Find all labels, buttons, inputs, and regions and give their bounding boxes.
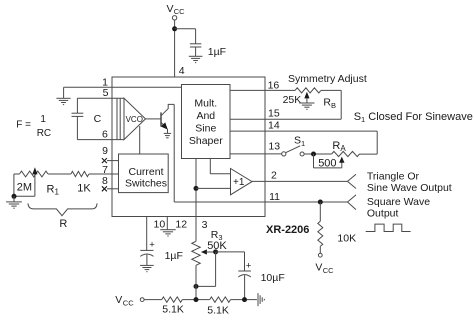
pin 6 label xyxy=(102,129,108,141)
ground (emitter) xyxy=(164,133,171,137)
transistor Q1 emitter xyxy=(161,122,168,133)
svg-text:2M: 2M xyxy=(17,181,32,193)
wire R3 bottom xyxy=(195,265,197,299)
wiper RA loop xyxy=(314,154,345,168)
wire pin 12 xyxy=(166,217,168,230)
junction dot S1/RA/wiper xyxy=(311,152,316,157)
wire VCO output to transistor base xyxy=(146,118,162,120)
label 25K xyxy=(283,94,302,106)
wire RB loop right xyxy=(340,90,342,119)
resistor 10K xyxy=(318,202,356,253)
label 5.1K right xyxy=(207,304,229,316)
wiper RB to ground xyxy=(304,92,309,103)
svg-text:Symmetry Adjust: Symmetry Adjust xyxy=(288,73,367,85)
capacitor 1uF (pin 10 bypass) xyxy=(140,239,183,265)
svg-text:+: + xyxy=(246,261,252,272)
svg-text:10K: 10K xyxy=(337,232,356,244)
svg-text:8: 8 xyxy=(102,175,108,187)
svg-text:V: V xyxy=(115,294,122,306)
wire junction to bypass capacitor xyxy=(175,29,196,44)
ground (bypass capacitor) xyxy=(189,56,203,62)
svg-text:15: 15 xyxy=(268,108,280,120)
switch S1 xyxy=(282,135,305,156)
svg-text:1µF: 1µF xyxy=(208,46,226,58)
svg-text:Switches: Switches xyxy=(125,178,167,190)
wire pin 6 xyxy=(77,139,124,141)
wire dot to ground xyxy=(13,196,15,201)
transistor Q1 collector xyxy=(161,104,174,115)
formula F = 1/RC xyxy=(16,114,51,139)
svg-text:16: 16 xyxy=(268,79,280,91)
label 500 xyxy=(318,157,336,169)
square wave icon xyxy=(366,224,411,231)
junction dot pin11/10K xyxy=(318,200,323,205)
IC XR-2206 outline xyxy=(112,77,265,217)
node VCC (10K pull-up) xyxy=(315,253,334,275)
op-amp +1 buffer xyxy=(231,169,253,195)
svg-text:RC: RC xyxy=(37,128,51,139)
svg-text:10µF: 10µF xyxy=(261,272,285,284)
svg-text:S1 Closed For Sinewave: S1 Closed For Sinewave xyxy=(354,111,473,124)
wire pin 11 from collector xyxy=(174,104,347,202)
wire S1 to RA xyxy=(304,153,331,155)
ground (pin 10 capacitor) xyxy=(140,265,154,271)
pin 1 label xyxy=(102,77,108,89)
wire pin 3 vertical xyxy=(195,159,197,242)
wire VCO to current switches xyxy=(139,126,141,154)
pin 11 label xyxy=(269,191,280,203)
svg-text:2: 2 xyxy=(271,170,277,182)
junction dot rail/10uF xyxy=(242,297,247,302)
svg-text:XR-2206: XR-2206 xyxy=(266,224,309,236)
transistor Q1 base bar xyxy=(160,112,162,126)
svg-text:Sine: Sine xyxy=(195,122,216,134)
capacitor 10uF xyxy=(238,261,284,300)
op-amp VCO (triangle) xyxy=(117,98,146,139)
label XR-2206 xyxy=(266,224,309,236)
pin 15 label xyxy=(268,108,280,120)
svg-text:Triangle Or: Triangle Or xyxy=(367,171,420,183)
svg-text:Output: Output xyxy=(367,207,399,219)
svg-text:10: 10 xyxy=(154,218,166,230)
pin 9 label xyxy=(102,145,108,157)
svg-text:5: 5 xyxy=(103,87,109,99)
label Symmetry Adjust xyxy=(288,73,367,85)
pin 2 label xyxy=(271,170,277,182)
resistor 5.1K (left) xyxy=(162,297,183,302)
junction dot R3 bottom xyxy=(194,284,199,289)
svg-text:1: 1 xyxy=(40,114,46,125)
label Square Wave xyxy=(367,196,430,208)
svg-text:And: And xyxy=(196,110,215,122)
wire pin 9 xyxy=(107,160,119,162)
label R1 xyxy=(47,184,60,197)
label Output xyxy=(367,207,399,219)
pin 8 X mark (open) xyxy=(102,186,107,191)
label S1 Closed For Sinewave xyxy=(354,111,473,124)
resistor R3 50K (pot) xyxy=(192,241,200,265)
brace R (total resistance) xyxy=(28,203,97,215)
junction dot 2M/ground xyxy=(12,194,17,199)
junction dot VCC/C bypass xyxy=(172,26,177,31)
svg-text:6: 6 xyxy=(102,129,108,141)
label 5.1K left xyxy=(162,304,184,316)
pin 10 label xyxy=(154,218,166,230)
label Sine Wave Output xyxy=(367,182,452,194)
svg-text:12: 12 xyxy=(175,218,187,230)
terminal fork pin 2 xyxy=(348,174,357,188)
wire pin 10 xyxy=(146,217,148,251)
wire pin 13 xyxy=(230,153,282,155)
svg-text:F =: F = xyxy=(16,120,31,131)
svg-text:CC: CC xyxy=(123,298,134,307)
junction dot R3 wiper xyxy=(213,249,218,254)
resistor R1 (2M pot element) xyxy=(20,171,49,177)
svg-text:C: C xyxy=(94,113,102,125)
node VCC (bottom rail) xyxy=(115,294,144,307)
wiper R3 xyxy=(201,249,216,254)
resistor RA 500 (pot) xyxy=(332,151,360,156)
pin 3 label xyxy=(202,219,208,231)
block Current Switches xyxy=(119,154,169,193)
wire pin7 left segment xyxy=(14,173,71,175)
svg-text:VCO: VCO xyxy=(126,115,143,124)
wire pin 1 xyxy=(64,86,182,88)
wire pin 2 output xyxy=(252,180,348,182)
wiper 2M pot xyxy=(14,167,38,196)
svg-text:1µF: 1µF xyxy=(165,250,183,262)
pin 4 label xyxy=(179,65,185,77)
resistor 1K xyxy=(71,171,89,176)
block Mult. And Sine Shaper xyxy=(182,85,231,159)
pin 5 label xyxy=(103,87,109,99)
wire VCC rail xyxy=(144,299,257,301)
label R3 xyxy=(211,229,223,242)
svg-text:R: R xyxy=(59,218,67,230)
svg-text:25K: 25K xyxy=(283,94,302,106)
label 2M xyxy=(17,181,32,193)
junction dot pin3/buffer xyxy=(194,186,199,191)
svg-text:Mult.: Mult. xyxy=(194,98,217,110)
wire RA loop right xyxy=(360,131,378,154)
ground (rail, rotated) xyxy=(258,293,264,306)
pin 16 label xyxy=(268,79,280,91)
svg-text:Sine Wave Output: Sine Wave Output xyxy=(367,182,452,194)
resistor 5.1K (right) xyxy=(210,297,231,302)
svg-text:14: 14 xyxy=(268,119,280,131)
wire pin 5 xyxy=(77,97,124,99)
wire pin 8 xyxy=(107,188,119,190)
label 1K xyxy=(77,183,91,195)
wire capacitor to ground xyxy=(195,47,197,56)
wire pin 7 into IC xyxy=(89,173,119,175)
label 50K xyxy=(207,240,227,252)
svg-text:13: 13 xyxy=(268,141,280,153)
label RA xyxy=(332,140,346,153)
ground (pin 12) xyxy=(160,230,176,236)
pin 14 label xyxy=(268,119,280,131)
ground (RB wiper) xyxy=(299,103,314,109)
svg-text:3: 3 xyxy=(202,219,208,231)
svg-text:V: V xyxy=(167,3,174,15)
label Triangle Or xyxy=(367,171,420,183)
capacitor 1uF (supply bypass) xyxy=(190,44,226,58)
svg-text:1K: 1K xyxy=(77,183,91,195)
ground (pin 1) xyxy=(56,98,70,104)
wire pin 16 xyxy=(230,89,341,91)
capacitor C (timing) xyxy=(72,98,102,139)
wire wiper return xyxy=(196,252,216,287)
label R xyxy=(59,218,67,230)
wire pin3 to buffer lower input xyxy=(196,187,231,189)
svg-text:CC: CC xyxy=(174,7,185,16)
pin 13 label xyxy=(268,141,280,153)
node VCC (top supply terminal) xyxy=(167,3,186,20)
label RB xyxy=(323,97,336,110)
junction dot rail/R3 xyxy=(194,297,199,302)
pin 7 label xyxy=(102,164,108,176)
wire pin 15 xyxy=(230,118,341,120)
pin 12 label xyxy=(175,218,187,230)
wire shaper to buffer input xyxy=(210,159,230,174)
svg-text:500: 500 xyxy=(318,157,336,169)
svg-text:11: 11 xyxy=(269,191,280,203)
pin 8 label xyxy=(102,175,108,187)
wire 2M pot left leg xyxy=(13,174,15,196)
pin 9 X mark (open) xyxy=(102,158,107,163)
svg-text:Square Wave: Square Wave xyxy=(367,196,430,208)
svg-text:V: V xyxy=(315,262,322,274)
ground (2M pot) xyxy=(6,202,22,208)
wire pin1 ground drop xyxy=(63,87,65,98)
svg-text:Current: Current xyxy=(128,166,163,178)
svg-text:5.1K: 5.1K xyxy=(207,304,229,316)
wire wiper to 10uF xyxy=(216,252,245,271)
resistor RB 25K (pot) xyxy=(295,88,321,93)
svg-text:4: 4 xyxy=(179,65,185,77)
svg-text:Shaper: Shaper xyxy=(189,135,223,147)
wire pin 14 xyxy=(230,130,377,132)
svg-text:+1: +1 xyxy=(233,177,245,188)
svg-text:+: + xyxy=(149,239,155,250)
svg-text:5.1K: 5.1K xyxy=(162,304,184,316)
wire VCC to pin 4 xyxy=(174,20,176,77)
svg-text:CC: CC xyxy=(323,266,334,275)
svg-text:9: 9 xyxy=(102,145,108,157)
terminal fork pin 11 xyxy=(348,195,357,210)
